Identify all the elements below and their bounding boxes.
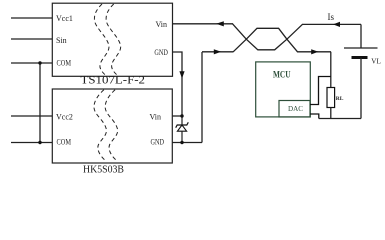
- wire bottom rail: [319, 118, 361, 120]
- battery VL short plate: [352, 56, 368, 59]
- zener diode triangle: [177, 125, 186, 131]
- svg-text:COM: COM: [57, 59, 72, 68]
- svg-text:Vin: Vin: [150, 112, 162, 121]
- svg-text:COM: COM: [57, 138, 72, 147]
- svg-text:Sin: Sin: [56, 36, 67, 45]
- arrow down on GND drop wire: [179, 71, 184, 78]
- DAC block: [279, 101, 310, 118]
- wire loop return vertical: [201, 52, 203, 143]
- wire RL top vertical: [330, 52, 332, 88]
- junction dot COM U2: [38, 141, 41, 144]
- battery VL long plate: [344, 47, 378, 49]
- svg-text:MCU: MCU: [273, 70, 291, 80]
- isolation barrier dashed curve 2 of U1: [106, 4, 121, 76]
- wire COM input (U2): [11, 142, 52, 144]
- wire U2 Vin to zener node: [173, 115, 183, 117]
- svg-text:GND: GND: [151, 138, 165, 147]
- battery VL negative wire: [360, 58, 362, 119]
- wire COM input (U1): [11, 62, 52, 64]
- isolation amplifier block U1 TS107L-F-2: [52, 3, 172, 76]
- svg-text:Vcc1: Vcc1: [56, 14, 73, 23]
- wire Sin input: [11, 38, 52, 40]
- svg-text:Vcc2: Vcc2: [56, 112, 73, 121]
- isolation barrier dashed curve 1 of U2: [94, 90, 106, 160]
- arrow right on lower-left loop wire: [214, 49, 221, 54]
- arrow right on lower-right wire: [311, 49, 318, 54]
- wire RL bottom vertical: [330, 108, 332, 119]
- wire Vcc1 input: [11, 17, 52, 19]
- wire loop lower-left horizontal: [202, 51, 233, 53]
- arrow left on Vin wire: [216, 21, 224, 26]
- wire U1 Vin to twisted pair (top left): [173, 23, 234, 25]
- isolation barrier dashed curve 1 of U1: [94, 4, 109, 76]
- svg-text:RL: RL: [336, 96, 344, 102]
- resistor RL: [327, 88, 335, 108]
- wire U2 GND to loop return: [173, 142, 203, 144]
- isolation barrier dashed curve 2 of U2: [105, 90, 117, 160]
- svg-text:GND: GND: [154, 48, 168, 57]
- junction dot zener top (Vin node): [180, 114, 183, 117]
- svg-text:Vin: Vin: [156, 20, 168, 29]
- arrow left (Is) on top-right wire: [333, 22, 340, 27]
- zener diode cathode bar with bent ends: [176, 122, 189, 127]
- svg-text:VL: VL: [371, 58, 381, 66]
- svg-text:Is: Is: [328, 12, 335, 22]
- twisted pair wire A (top-left to bottom of lens to top-right): [233, 24, 303, 50]
- svg-text:HK5S03B: HK5S03B: [83, 164, 124, 175]
- zener diode lower lead: [181, 131, 183, 142]
- junction dot zener bottom (GND node): [180, 141, 183, 144]
- battery VL positive wire: [360, 24, 362, 48]
- wire DAC pin to bottom rail: [310, 114, 319, 119]
- svg-text:TS107L-F-2: TS107L-F-2: [81, 75, 146, 87]
- isolated DC/DC block U2 HK5S03B: [52, 89, 172, 163]
- svg-text:DAC: DAC: [288, 104, 303, 113]
- wire top-right to battery: [302, 23, 361, 25]
- wire MCU pin to RL top node: [310, 77, 331, 105]
- zener diode upper lead: [181, 116, 183, 125]
- MCU block: [256, 62, 311, 117]
- twisted pair wire B (bottom-left to top of lens to bottom-right): [233, 28, 331, 52]
- wire U1 GND down to zener node: [173, 52, 183, 116]
- junction dot COM U1: [38, 61, 41, 64]
- wire Vcc2 input: [11, 115, 52, 117]
- wire COM-COM vertical tie: [39, 63, 41, 143]
